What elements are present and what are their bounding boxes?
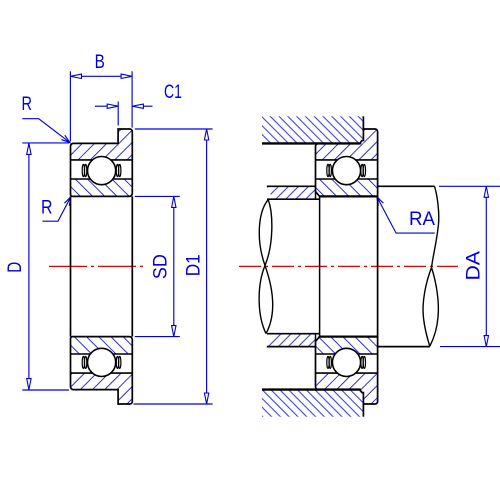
svg-text:DA: DA (463, 251, 485, 281)
svg-text:SD: SD (150, 254, 172, 279)
svg-text:RA: RA (409, 208, 435, 230)
svg-text:R: R (41, 196, 53, 218)
svg-text:D1: D1 (182, 254, 204, 276)
svg-text:R: R (22, 93, 33, 115)
svg-text:C1: C1 (164, 81, 182, 103)
svg-text:D: D (4, 262, 26, 273)
svg-text:B: B (95, 51, 105, 73)
